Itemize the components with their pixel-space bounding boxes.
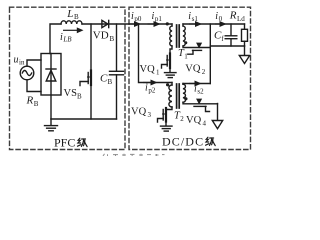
svg-text:1: 1 [184,52,188,60]
svg-text:VQ: VQ [131,107,147,118]
svg-text:VQ: VQ [140,64,156,75]
svg-text:s1: s1 [192,15,199,23]
svg-text:B: B [74,13,79,21]
svg-text:B: B [34,100,39,108]
svg-text:R: R [26,95,34,107]
svg-text:u: u [14,55,19,66]
svg-text:B: B [110,35,115,43]
svg-text:in: in [19,59,25,67]
svg-text:DC/DC: DC/DC [162,135,204,149]
svg-text:p0: p0 [134,15,142,23]
svg-text:VQ: VQ [186,115,202,126]
svg-text:3: 3 [148,111,152,119]
svg-text:p1: p1 [155,15,163,23]
svg-text:4: 4 [203,119,207,127]
svg-text:2: 2 [202,68,206,76]
svg-text:B: B [77,92,82,100]
svg-text:VD: VD [93,30,109,42]
svg-text:R: R [229,10,237,22]
svg-text:B: B [108,78,113,86]
svg-text:s2: s2 [197,88,204,96]
svg-text:Ld: Ld [237,15,245,23]
svg-text:0: 0 [219,15,223,23]
svg-text:VS: VS [64,88,78,99]
svg-text:1: 1 [156,68,160,76]
svg-text:LB: LB [62,36,72,44]
svg-text:L: L [66,8,73,20]
svg-text:PFC: PFC [54,136,75,150]
svg-text:p2: p2 [148,87,156,95]
svg-text:VQ: VQ [185,64,201,75]
svg-text:2: 2 [180,115,184,123]
